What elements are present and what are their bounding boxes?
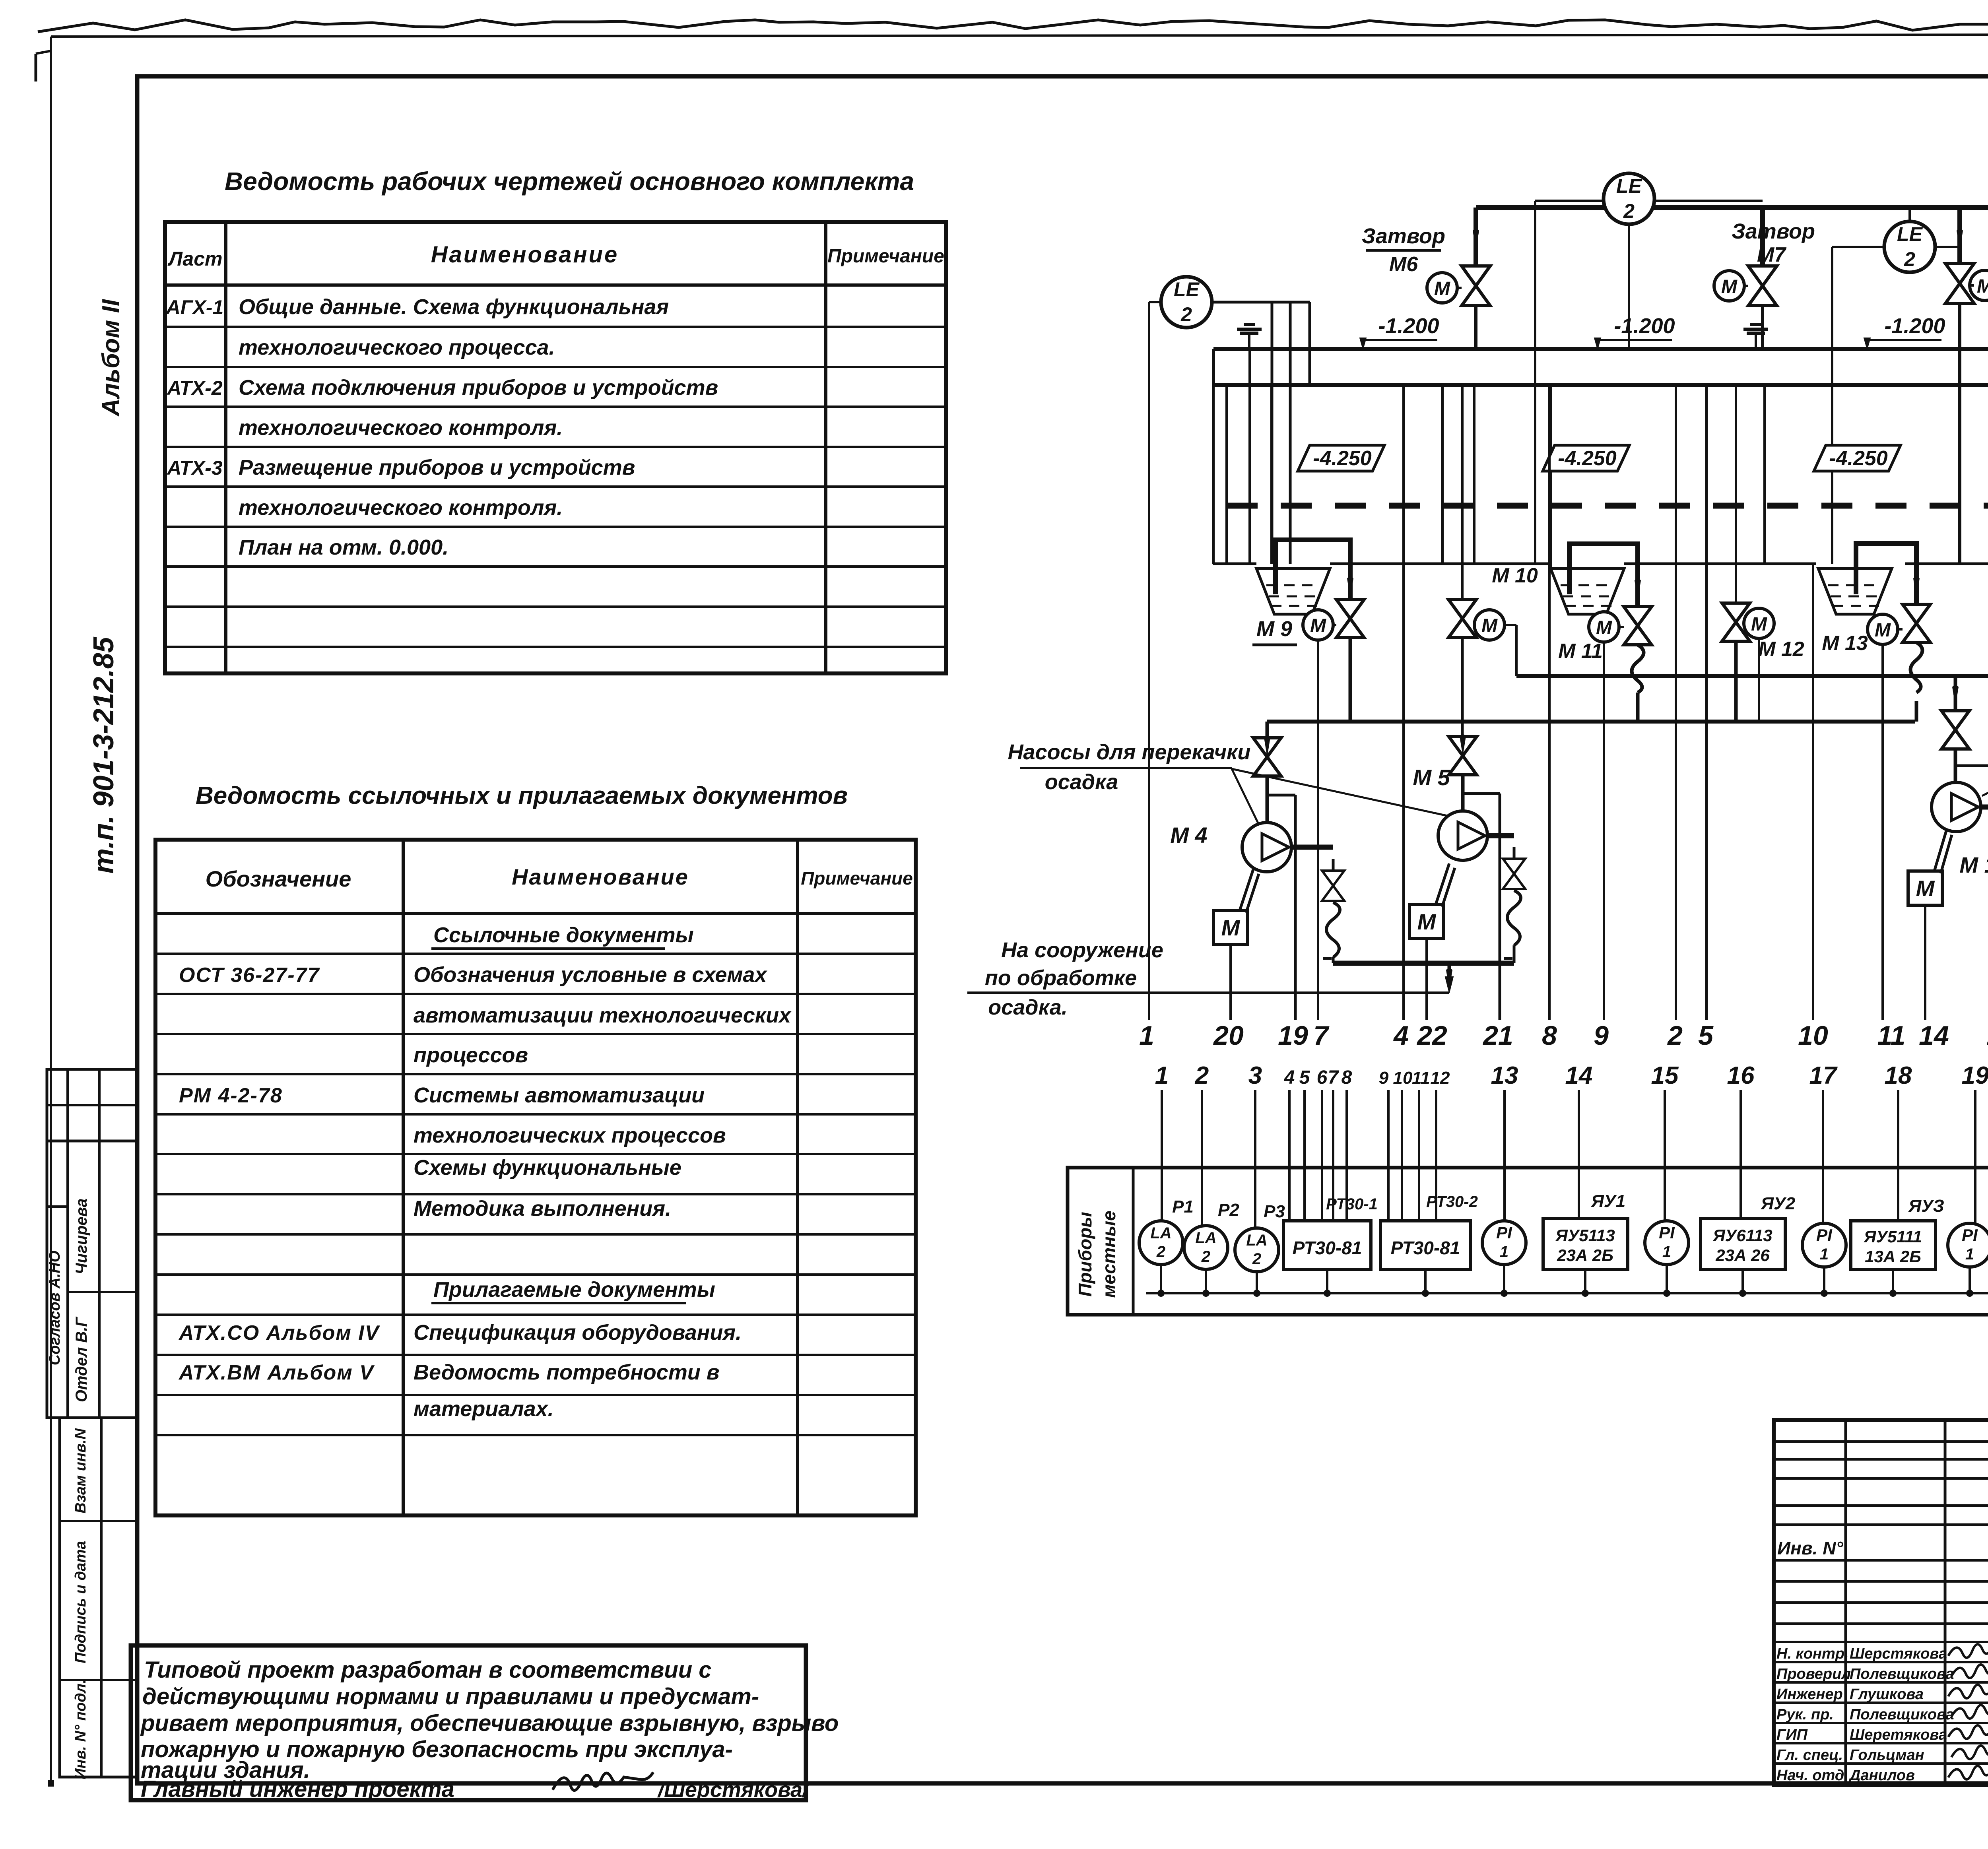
svg-text:-4.250: -4.250 [1558,447,1617,470]
svg-text:Насосы для перекачки: Насосы для перекачки [1008,740,1251,764]
svg-text:Глушкова: Глушкова [1850,1686,1924,1703]
wires LE3 [1908,208,1911,221]
svg-text:процессов: процессов [414,1043,528,1067]
svg-text:Затвор: Затвор [1732,219,1815,243]
flow arrows [1473,229,1479,250]
svg-text:9: 9 [1594,1021,1609,1051]
svg-text:действующими нормами и пра: действующими нормами и правилами и преду… [142,1684,759,1709]
svg-text:автоматизации технологичес: автоматизации технологических [414,1003,792,1027]
wire 9 from motor [1603,642,1605,1020]
svg-text:Обозначение: Обозначение [206,866,351,891]
ground symbols [1244,323,1255,326]
elevation -4.250 markers [1298,445,1384,471]
svg-text:М: М [1310,615,1326,636]
tank basin 2 [1551,568,1624,614]
pump M4 suction [1266,722,1269,738]
svg-text:Инв. N° подл.: Инв. N° подл. [72,1679,89,1779]
valve M12 pair [1722,603,1750,622]
svg-text:М 4: М 4 [1170,823,1207,848]
svg-text:2: 2 [1623,200,1635,222]
svg-text:21: 21 [1482,1021,1513,1051]
svg-text:План на отм. 0.000.: План на отм. 0.000. [239,535,448,559]
wire from M10 motor to collector [1505,624,1516,626]
LA indicator P2 [1184,1226,1228,1269]
svg-text:Р1: Р1 [1172,1197,1194,1216]
svg-text:1: 1 [1965,1246,1974,1263]
margin stamp group B [60,1418,137,1777]
svg-text:технологического контрол: технологического контроля. [239,416,563,440]
starter YaU2 [1701,1218,1785,1269]
svg-text:М: М [1751,614,1767,635]
LA indicator P1 [1139,1221,1183,1265]
pump M1 [1932,782,1981,832]
svg-text:РТ30-2: РТ30-2 [1426,1193,1478,1211]
svg-text:технологического контроля: технологического контроля. [239,496,563,520]
svg-text:LE: LE [1616,175,1642,197]
svg-text:АТХ.СО Альбом IV: АТХ.СО Альбом IV [178,1321,381,1345]
long vertical wires to row A [1402,385,1405,1020]
scan torn top edge [38,20,1988,32]
starter YaU1 [1543,1218,1628,1269]
svg-text:2: 2 [1201,1248,1210,1265]
svg-text:М: М [1916,876,1935,901]
PI gauge 3 [1802,1223,1846,1267]
svg-text:АГХ-1: АГХ-1 [165,296,224,318]
svg-text:22: 22 [1416,1021,1447,1051]
svg-text:Наименование: Наименование [512,864,689,889]
svg-text:-1.200: -1.200 [1378,314,1439,338]
svg-text:LA: LA [1150,1224,1171,1242]
supply header pipe [1476,205,1988,210]
water level dashed line [1227,503,1988,509]
svg-text:т.п. 901-3-212.85: т.п. 901-3-212.85 [88,636,120,873]
LE level sensor 2 [1604,173,1654,224]
svg-text:6: 6 [1317,1067,1328,1088]
wire 13 [1955,764,1988,767]
collector line L1 [1516,674,1988,678]
svg-text:-4.250: -4.250 [1829,447,1888,470]
controller RT30-1 [1283,1221,1371,1269]
svg-text:PI: PI [1659,1223,1675,1242]
svg-text:осадка: осадка [1045,770,1118,794]
svg-text:4: 4 [1393,1021,1409,1051]
LE level sensor 1 [1161,277,1212,328]
svg-text:8: 8 [1342,1067,1352,1088]
svg-text:М: М [1721,276,1738,297]
svg-text:М 5: М 5 [1413,765,1450,790]
svg-text:-4.250: -4.250 [1313,447,1372,470]
svg-text:АТХ-2: АТХ-2 [166,377,223,399]
local instruments strip frame [1068,1168,1988,1315]
collector line L2 [1267,720,1915,724]
svg-text:7: 7 [1328,1067,1340,1088]
sludge label leaders [1232,769,1258,824]
valve pair tank2 right [1589,612,1619,642]
PI gauge 2 [1645,1221,1689,1265]
svg-text:10: 10 [1393,1068,1413,1088]
svg-text:осадка.: осадка. [988,995,1068,1019]
LE level sensor 3 [1884,221,1935,272]
settling tank top line [1213,563,1256,565]
svg-text:1: 1 [1662,1243,1671,1261]
svg-text:Согласов А.НО: Согласов А.НО [47,1251,63,1366]
svg-text:Размещение приборов и: Размещение приборов и устройств [239,456,635,479]
svg-text:М 12: М 12 [1758,638,1804,661]
valve M10 pair [1448,600,1476,619]
wire LE2 sides [1654,200,1763,202]
svg-text:Альбом II: Альбом II [97,299,125,417]
svg-text:Схемы функциональные: Схемы функциональные [414,1156,681,1180]
svg-text:7: 7 [1313,1021,1330,1051]
svg-text:Обозначения условные в схе: Обозначения условные в схемах [414,963,767,987]
wire LE2 down [1628,224,1630,349]
svg-text:М 13: М 13 [1822,632,1868,655]
overflow pipe tank 3 [1856,543,1916,604]
svg-text:PI: PI [1816,1226,1833,1244]
svg-text:1: 1 [1820,1246,1829,1263]
svg-text:Методика выполнения.: Методика выполнения. [414,1197,671,1220]
pump M1 suction [1954,676,1957,711]
svg-text:Наименование: Наименование [431,242,619,268]
signatures column [1948,1642,1988,1657]
svg-text:15: 15 [1651,1062,1679,1089]
svg-text:18: 18 [1885,1062,1912,1089]
svg-text:PI: PI [1496,1223,1512,1242]
svg-text:Гл. спец.: Гл. спец. [1776,1747,1843,1764]
PI gauge 4 [1948,1223,1988,1267]
svg-text:-1.200: -1.200 [1884,314,1945,338]
svg-text:Инженер: Инженер [1776,1686,1843,1703]
wire 22 from M5 motor [1425,939,1428,1020]
svg-text:Ведомость ссылочных и прила: Ведомость ссылочных и прилагаемых докуме… [196,782,848,809]
svg-text:М: М [1875,620,1891,641]
svg-text:Шеретякова: Шеретякова [1850,1727,1947,1743]
svg-text:Полевщикова: Полевщикова [1850,1706,1954,1723]
pump M5 suction [1461,385,1464,600]
svg-text:Инв. N°: Инв. N° [1777,1538,1843,1558]
table 1 frame [165,222,946,673]
flex connector 2 [1910,642,1922,693]
svg-text:11: 11 [1877,1021,1906,1051]
top rule line [51,34,1988,37]
title block left rows [1774,1440,1988,1443]
svg-text:1: 1 [1139,1021,1154,1051]
svg-text:технологических процессов: технологических процессов [414,1123,726,1147]
svg-text:2: 2 [1180,303,1192,326]
channel band lower line [1213,383,1988,387]
pump M4 discharge [1291,845,1333,850]
svg-text:10: 10 [1798,1021,1828,1051]
svg-text:Общие данные. Схема функцио: Общие данные. Схема функциональная [239,295,669,319]
wire LE1 right [1212,301,1310,304]
chief engineer signature [553,1772,653,1791]
wire from LE1 to line 1 [1149,301,1161,303]
svg-text:ЯУ5111: ЯУ5111 [1864,1227,1922,1246]
sludge discharge run [1333,961,1514,966]
svg-text:13А 2Б: 13А 2Б [1865,1247,1921,1266]
svg-text:Примечание: Примечание [827,246,944,267]
svg-text:9: 9 [1379,1068,1389,1088]
svg-text:Главный инженер проекта: Главный инженер проекта [141,1776,454,1802]
svg-text:РМ 4-2-78: РМ 4-2-78 [179,1084,283,1107]
pump M4 [1242,823,1291,872]
margin stamp empty boxes [47,1069,137,1141]
note box typical project [131,1645,806,1800]
svg-text:Затвор: Затвор [1362,224,1445,248]
channel band upper line [1213,347,1988,351]
svg-text:11: 11 [1412,1068,1430,1088]
svg-text:Ведомость рабочих чертежей: Ведомость рабочих чертежей основного ком… [225,167,914,196]
PI gauge 1 [1482,1221,1526,1265]
small black corner mark bottom-left [48,1780,54,1787]
valve M13 pair [1868,614,1898,644]
svg-text:19: 19 [1962,1062,1988,1089]
svg-text:13: 13 [1986,1021,1988,1051]
svg-text:М 11: М 11 [1558,640,1603,663]
svg-text:местные: местные [1099,1211,1119,1298]
pump M4 motor [1213,910,1248,945]
svg-text:Прилагаемые документы: Прилагаемые документы [433,1278,715,1302]
svg-text:2: 2 [1904,248,1915,270]
left paper edge line [50,37,52,1783]
svg-text:17: 17 [1809,1062,1838,1089]
LA indicator P3 [1235,1228,1279,1272]
svg-text:Проверил: Проверил [1776,1666,1851,1682]
svg-text:1: 1 [1155,1062,1169,1089]
svg-text:Ссылочные документы: Ссылочные документы [433,923,694,947]
overflow pipe tank 1 [1276,540,1350,600]
svg-text:На сооружение: На сооружение [1001,938,1163,962]
svg-text:технологического процес: технологического процесса. [239,336,555,359]
svg-text:1: 1 [1500,1243,1508,1261]
pump M5 [1438,811,1487,860]
table 2 frame [155,840,916,1515]
svg-text:2: 2 [1667,1021,1683,1051]
svg-text:Подпись и дата: Подпись и дата [72,1541,89,1663]
svg-text:Ведомость потребности: Ведомость потребности в [414,1360,719,1384]
svg-text:М6: М6 [1389,253,1418,276]
svg-text:по обработке: по обработке [985,966,1137,990]
valve M9 pair [1303,610,1333,640]
svg-text:РТ30-81: РТ30-81 [1293,1238,1362,1258]
svg-text:Н. контр.: Н. контр. [1776,1645,1849,1662]
svg-text:Примечание: Примечание [801,868,913,889]
starter YaU3 [1851,1221,1936,1269]
svg-text:ГИП: ГИП [1776,1727,1808,1743]
svg-text:М: М [1596,617,1612,638]
svg-text:ЯУ2: ЯУ2 [1761,1194,1796,1213]
svg-text:Чигирева: Чигирева [73,1198,90,1274]
svg-text:ривает мероприятия, обеспечив: ривает мероприятия, обеспечивающие взрыв… [140,1710,839,1736]
svg-text:Р3: Р3 [1264,1202,1285,1221]
svg-text:ЯУЗ: ЯУЗ [1908,1196,1944,1216]
svg-text:5: 5 [1698,1021,1714,1051]
pump M5 motor [1409,904,1444,939]
svg-text:Полевщикова: Полевщикова [1850,1666,1954,1682]
pump M1 motor [1908,871,1942,905]
svg-text:Отдел В.Г: Отдел В.Г [73,1316,90,1402]
svg-text:М: М [1417,909,1437,934]
svg-text:М 10: М 10 [1492,564,1538,587]
wire 7 from M9 motor [1317,640,1319,1020]
svg-text:Р2: Р2 [1218,1200,1239,1220]
svg-text:ЯУ6113: ЯУ6113 [1712,1226,1772,1245]
svg-text:Спецификация оборудования.: Спецификация оборудования. [414,1321,742,1345]
leaders clear water [1982,663,1988,796]
flex connector [1632,645,1644,693]
svg-text:ЯУ1: ЯУ1 [1591,1191,1625,1211]
title block frame [1774,1420,1988,1785]
svg-text:23А 26: 23А 26 [1715,1246,1770,1265]
svg-text:14: 14 [1565,1062,1593,1089]
svg-text:М: М [1977,276,1988,297]
svg-text:LE: LE [1174,278,1200,301]
svg-text:М: М [1434,278,1450,299]
svg-text:4: 4 [1284,1067,1295,1088]
svg-text:20: 20 [1213,1021,1244,1051]
tank basin 3 [1818,568,1892,614]
svg-text:PI: PI [1962,1226,1978,1244]
svg-text:РТ30-81: РТ30-81 [1391,1238,1460,1258]
controller RT30-2 [1380,1221,1470,1269]
svg-text:Нач. отд.: Нач. отд. [1776,1767,1848,1784]
svg-text:Типовой проект разработан: Типовой проект разработан в соответствии… [144,1657,712,1683]
svg-text:Приборы: Приборы [1075,1212,1095,1296]
channel left wall [1212,385,1215,564]
svg-text:ОСТ 36-27-77: ОСТ 36-27-77 [179,964,320,987]
svg-text:23А 2Б: 23А 2Б [1557,1246,1613,1265]
svg-text:2: 2 [1252,1250,1261,1268]
svg-text:Взам инв.N: Взам инв.N [72,1428,89,1513]
pump M5 discharge [1487,833,1514,838]
svg-text:Ласт: Ласт [167,248,222,270]
svg-text:ЯУ5113: ЯУ5113 [1555,1226,1615,1245]
pump M1 discharge [1981,805,1988,810]
svg-text:/Шерстякова/: /Шерстякова/ [657,1778,810,1802]
svg-text:2: 2 [1156,1243,1165,1261]
wire 19 from pump M4 suction [1267,794,1295,797]
svg-text:М: М [1221,915,1241,940]
svg-text:3: 3 [1248,1062,1262,1089]
svg-text:Системы автоматизации: Системы автоматизации [414,1083,705,1107]
instrument bus [1146,1292,1988,1294]
band crossing pipes [1473,385,1475,564]
svg-text:16: 16 [1727,1062,1755,1089]
svg-text:М 1: М 1 [1959,852,1988,877]
margin stamp group A [47,1141,137,1418]
svg-text:М 9: М 9 [1256,617,1292,641]
svg-text:-1.200: -1.200 [1614,314,1675,338]
svg-text:13: 13 [1491,1062,1518,1089]
svg-text:АТХ.ВМ Альбом V: АТХ.ВМ Альбом V [178,1361,375,1384]
svg-text:LE: LE [1897,223,1923,245]
tank basin 1 [1256,568,1330,614]
wire 21 from pump M5 suction [1463,792,1500,795]
svg-text:14: 14 [1919,1021,1949,1051]
svg-text:Данилов: Данилов [1848,1767,1915,1784]
overflow pipe tank 2 [1569,544,1638,607]
svg-text:материалах.: материалах. [414,1397,554,1421]
svg-text:2: 2 [1195,1062,1209,1089]
svg-text:19: 19 [1278,1021,1308,1051]
wire 20 from M4 motor [1229,945,1232,1020]
svg-text:8: 8 [1542,1021,1557,1051]
svg-text:М: М [1481,615,1498,636]
wire 14 from M1 motor [1924,905,1926,1020]
svg-text:Гольцман: Гольцман [1850,1747,1924,1764]
svg-text:Шерстякова: Шерстякова [1850,1645,1947,1662]
svg-text:LA: LA [1246,1232,1267,1249]
svg-text:12: 12 [1431,1068,1450,1088]
svg-text:Схема подключения приборов: Схема подключения приборов и устройств [239,376,718,400]
svg-text:LA: LA [1195,1229,1216,1247]
svg-text:5: 5 [1299,1067,1310,1088]
svg-text:Рук. пр.: Рук. пр. [1776,1706,1834,1723]
svg-text:АТХ-3: АТХ-3 [166,457,223,479]
wire 11 from motor [1881,644,1884,1020]
